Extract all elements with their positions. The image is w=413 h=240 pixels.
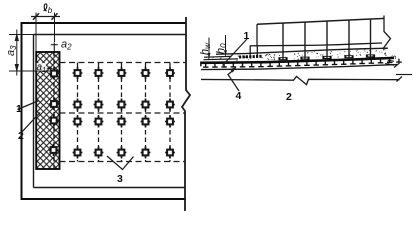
panel bottom chord [250, 43, 382, 46]
plate stud centerline [53, 52, 55, 169]
plate left end cap [200, 62, 202, 67]
left support lower line [204, 58, 239, 61]
stud anchor at (145.5,121.5) [141, 116, 151, 128]
dimension h_w [208, 38, 210, 59]
stud anchor at (121.5,104.5) [117, 99, 127, 111]
panel end legs [249, 46, 251, 56]
stud anchor at (145.5,73) [141, 67, 151, 79]
stud anchor at (77.5,104.5) [73, 99, 83, 111]
stud bases under panel ribs [278, 57, 287, 60]
dimension a3 [15, 30, 18, 76]
dashed row line top [60, 62, 186, 64]
leader to label 1 (section) [223, 39, 248, 66]
stud column line x=121.5 [121, 63, 123, 162]
svg-text:b: b [48, 6, 53, 15]
stud column line x=145.5 [145, 63, 147, 162]
h_s tick bottom [397, 77, 403, 82]
extension line a3 top [9, 34, 34, 36]
stud column line x=170 [169, 63, 171, 162]
line under stud row [201, 65, 397, 70]
panel ribs [282, 23, 284, 60]
leader to label 2 (plan) [21, 113, 40, 134]
stud anchor at (121.5,121.5) [117, 116, 127, 128]
stud anchor at (53.5,150) [49, 144, 59, 156]
stud anchor at (145.5,104.5) [141, 99, 151, 111]
stud anchor at (54,104) [49, 98, 59, 110]
stud anchor at (98.5,104.5) [94, 99, 104, 111]
svg-text:4: 4 [236, 90, 242, 102]
stud anchor at (121.5,73) [117, 67, 127, 79]
stud anchor at (170,152.5) [165, 147, 175, 159]
stud anchor at (98.5,73) [94, 67, 104, 79]
dimension h_0 [225, 35, 227, 56]
left support upper line [204, 55, 231, 58]
slab top line (section) [216, 48, 388, 54]
stud anchor at (170,104.5) [165, 99, 175, 111]
stud anchor at (170,73) [165, 67, 175, 79]
stud anchor at (53.8,120.5) [49, 115, 59, 127]
svg-text:2: 2 [18, 130, 24, 142]
wall outer corner lines (plan) [21, 22, 187, 199]
stud column line x=98.5 [98, 63, 100, 162]
right border with break (plan) [182, 17, 190, 211]
stud anchor at (98.5,152.5) [94, 147, 104, 159]
stud anchor at (77.5,152.5) [73, 147, 83, 159]
extension lines l_b [35, 13, 37, 53]
slab bottom line with break [201, 76, 400, 84]
stud anchor at (145.5,152.5) [141, 147, 151, 159]
short line right of h_s [396, 74, 412, 76]
svg-text:3: 3 [117, 173, 123, 185]
a2 centerline marker [51, 43, 58, 53]
anchor stud row below plate (section) [203, 59, 402, 67]
label l_b [44, 4, 47, 11]
panel left edge [256, 24, 258, 46]
stud column line x=77.5 [77, 63, 79, 162]
label a1 with leader [37, 63, 47, 71]
svg-text:2: 2 [286, 91, 292, 103]
stud anchor at (170,121.5) [165, 116, 175, 128]
embedded plate 1 (hatched) [36, 52, 59, 169]
wall inner face lines [34, 35, 186, 188]
svg-text:1: 1 [16, 103, 22, 115]
svg-text:1: 1 [244, 30, 250, 42]
stud anchor at (77.5,73) [73, 67, 83, 79]
dimension l_b [31, 16, 60, 18]
dashed row line middle [60, 112, 186, 114]
steel plate thick line (section) [201, 58, 395, 63]
stud anchor at (54,73.5) [49, 68, 59, 80]
stud anchor at (121.5,152.5) [117, 147, 127, 159]
stud anchor at (77.5,121.5) [73, 116, 83, 128]
h_s tick top [394, 63, 400, 68]
leader V to label 3 [107, 156, 134, 170]
concrete stipple dots [206, 49, 387, 60]
studs on embedded plate (section comb) [239, 56, 241, 59]
extension line first stud row / a1 line [9, 70, 60, 72]
panel right edge with break [384, 16, 391, 51]
stud anchor at (98.5,121.5) [94, 116, 104, 128]
leader to label 4 [228, 71, 239, 92]
leader to label 1 (plan) [18, 101, 40, 110]
ribbed floor panel top line [257, 18, 384, 24]
dashed row line bottom [60, 161, 186, 163]
